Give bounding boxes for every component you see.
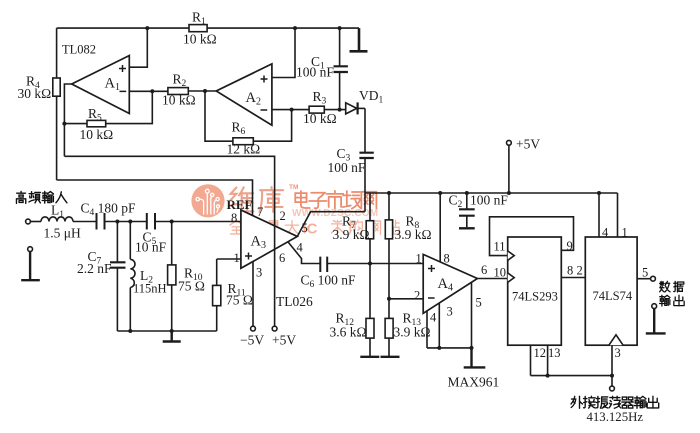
- capacitor C6: [320, 257, 327, 272]
- node junction C7: [115, 220, 119, 224]
- svg-text:6: 6: [279, 251, 285, 265]
- wire A3 pin4 output to C6: [288, 242, 320, 264]
- svg-text:2.2 nF: 2.2 nF: [77, 261, 112, 276]
- node junction R7 C6 line: [368, 262, 372, 266]
- wire A4 pin3: [438, 303, 440, 348]
- resistor R5: [64, 91, 152, 123]
- svg-text:2: 2: [414, 289, 420, 303]
- op-amp A2: [216, 64, 272, 125]
- wire feedback loop pin11 pin9: [490, 217, 574, 256]
- node junction pin13 bottom: [546, 374, 550, 378]
- wire A2 - input to R3: [272, 109, 346, 111]
- svg-text:8: 8: [444, 252, 450, 266]
- node junction A1+ rail: [145, 26, 149, 30]
- node junction C2 rail: [465, 191, 469, 195]
- svg-text:13: 13: [548, 346, 561, 360]
- svg-text:4: 4: [297, 241, 304, 255]
- IC 74LS293: [508, 237, 562, 345]
- svg-text:12 kΩ: 12 kΩ: [227, 142, 261, 157]
- wire A2 + input to rail: [272, 28, 295, 77]
- node junction 74LS74 pin4 rail: [597, 191, 601, 195]
- svg-text:TL026: TL026: [276, 294, 313, 309]
- wire 74LS74 pin3 to oscillator terminal: [611, 345, 613, 386]
- wire A4 pin4: [426, 311, 428, 348]
- svg-text:10: 10: [494, 266, 507, 280]
- clock symbol pin11: [508, 251, 515, 260]
- ground data return: [646, 309, 666, 334]
- resistor R3: [309, 106, 324, 113]
- svg-text:C6 100 nF: C6 100 nF: [301, 273, 357, 291]
- svg-text:8: 8: [231, 211, 237, 225]
- node junction +5V terminal rail: [507, 191, 511, 195]
- svg-text:C4 180 pF: C4 180 pF: [81, 201, 137, 219]
- svg-text:9: 9: [567, 239, 573, 253]
- svg-text:4: 4: [602, 226, 609, 240]
- resistor R12: [369, 264, 371, 357]
- op-amp A4 MAX961: [423, 254, 477, 313]
- wire input to L1: [30, 221, 41, 223]
- svg-text:3: 3: [256, 266, 262, 280]
- inductor L2: [130, 222, 135, 332]
- node junction C1 rail: [338, 26, 342, 30]
- wire A3 pin3: [252, 262, 254, 327]
- node junction pin3 gnd line: [437, 346, 441, 350]
- IC 74LS74: [585, 237, 637, 345]
- terminal data return: [652, 304, 657, 309]
- node junction R2 R6: [203, 89, 207, 93]
- CIRCUIT: [53, 25, 374, 212]
- wire 74LS74 pin4: [598, 193, 600, 237]
- wire C4 to C5: [105, 221, 147, 223]
- capacitor C1: [339, 28, 341, 110]
- terminal +5V A3: [272, 326, 277, 331]
- label input chinese: [16, 191, 66, 203]
- svg-text:5: 5: [642, 266, 648, 280]
- svg-text:2: 2: [577, 264, 583, 278]
- clock symbol pin3: [609, 335, 623, 345]
- resistor R10: [171, 222, 173, 332]
- resistor R8: [388, 193, 390, 299]
- wire top feedback rail: [57, 27, 359, 29]
- svg-text:3: 3: [447, 305, 453, 319]
- wire 74LS293 pin13: [547, 345, 549, 375]
- wire bottom oscillator line: [531, 375, 613, 377]
- resistor R11: [216, 259, 218, 331]
- svg-text:10 nF: 10 nF: [135, 240, 167, 255]
- svg-text:11: 11: [494, 240, 506, 254]
- svg-text:3.9 kΩ: 3.9 kΩ: [395, 227, 432, 242]
- MIDDLE2: [21, 156, 423, 341]
- wire +5V rail: [365, 192, 618, 194]
- node junction R8 rail: [387, 191, 391, 195]
- svg-text:100 nF: 100 nF: [296, 65, 334, 80]
- svg-text:10 kΩ: 10 kΩ: [303, 111, 337, 126]
- resistor R7: [369, 193, 371, 264]
- wire A4 pin5: [471, 283, 473, 348]
- terminal input signal: [26, 219, 31, 224]
- svg-text:10 kΩ: 10 kΩ: [162, 93, 196, 108]
- wire A3 pin2 pin6 vertical: [64, 156, 274, 326]
- node junction A4 pin8 rail: [438, 191, 442, 195]
- inductor L1: [41, 217, 73, 222]
- wire C5 to A3 input: [155, 221, 241, 223]
- TOPLABELS: [18, 10, 384, 176]
- node junction pin3 bottom: [610, 374, 614, 378]
- svg-text:+5V: +5V: [516, 137, 540, 152]
- svg-text:+5V: +5V: [272, 333, 296, 348]
- node junction L2 bottom: [128, 329, 132, 333]
- svg-text:115nH: 115nH: [133, 282, 167, 296]
- svg-text:1: 1: [416, 252, 422, 266]
- wire R2 to A2 output: [188, 90, 216, 92]
- wire 74LS74 pin5 output: [637, 278, 651, 280]
- RIGHT: [360, 140, 665, 390]
- wire A4 pin2: [389, 298, 423, 300]
- svg-text:TL082: TL082: [62, 43, 96, 57]
- terminal input return: [28, 247, 33, 252]
- capacitor C7: [116, 222, 118, 332]
- ground C2: [459, 227, 475, 229]
- wire L1 to C4: [73, 221, 97, 223]
- svg-text:1: 1: [622, 226, 628, 240]
- svg-text:6: 6: [481, 263, 487, 277]
- terminal -5V A3: [251, 326, 256, 331]
- wire A1 output down: [64, 84, 71, 156]
- svg-text:100 nF: 100 nF: [470, 193, 508, 208]
- svg-text:74LS74: 74LS74: [593, 289, 633, 303]
- ground MAX961: [464, 348, 486, 368]
- wire A1 - input: [129, 90, 168, 92]
- ground top right: [350, 28, 368, 51]
- svg-text:5: 5: [476, 296, 482, 310]
- wire A4 pin8: [439, 193, 441, 263]
- svg-text:7: 7: [257, 205, 263, 219]
- resistor R6 feedback: [205, 91, 292, 141]
- node junction A1 out R5: [62, 122, 66, 126]
- svg-text:30 kΩ: 30 kΩ: [18, 86, 52, 101]
- node junction R10: [170, 220, 174, 224]
- resistor R2: [168, 88, 188, 95]
- capacitor C4: [97, 213, 105, 230]
- op-amp A1: [72, 56, 130, 114]
- svg-text:413.125Hz: 413.125Hz: [587, 410, 644, 424]
- ground R13: [381, 356, 400, 358]
- wire A4 ground line: [427, 347, 472, 349]
- wire C6 to A4 pin1: [327, 263, 423, 265]
- resistor R13: [388, 299, 390, 357]
- node junction A2- R6: [290, 108, 294, 112]
- wire A3 pin1: [217, 258, 241, 260]
- svg-text:10 kΩ: 10 kΩ: [183, 32, 217, 47]
- svg-text:4: 4: [430, 311, 437, 325]
- wire 74LS74 pin1: [617, 193, 619, 237]
- svg-text:TM: TM: [289, 184, 298, 191]
- svg-text:3.9 kΩ: 3.9 kΩ: [333, 227, 370, 242]
- svg-text:3.6 kΩ: 3.6 kΩ: [330, 325, 367, 340]
- ground input: [21, 252, 40, 281]
- diode VD1: [346, 103, 357, 114]
- wire 74LS293 pin8 to 74LS74 pin2: [561, 277, 585, 279]
- svg-text:1: 1: [234, 251, 240, 265]
- capacitor C2: [466, 193, 468, 227]
- wire VD1 to C3: [364, 108, 366, 152]
- svg-text:5: 5: [302, 221, 308, 235]
- label oscillator output chinese: [571, 396, 659, 408]
- svg-text:3.9 kΩ: 3.9 kΩ: [394, 325, 431, 340]
- svg-text:MAX961: MAX961: [448, 375, 500, 390]
- svg-text:10 kΩ: 10 kΩ: [80, 127, 114, 142]
- terminal +5V: [507, 140, 512, 145]
- svg-text:8: 8: [567, 264, 573, 278]
- node junction R3 C1: [338, 108, 342, 112]
- svg-text:−5V: −5V: [240, 333, 264, 348]
- ground bottom rail: [163, 331, 181, 342]
- node junction R10 bottom: [170, 329, 174, 333]
- node junction R8 A4 pin2: [387, 297, 391, 301]
- svg-text:3: 3: [615, 346, 621, 360]
- wire bottom rail: [117, 330, 216, 332]
- node junction pin5 gnd line: [470, 346, 474, 350]
- clock symbol pin10: [508, 273, 515, 282]
- wire A3 pin5 output: [297, 212, 365, 237]
- wire R4 vertical branch: [56, 28, 58, 180]
- svg-text:REF: REF: [227, 197, 253, 212]
- wire 74LS293 pin12: [530, 345, 532, 375]
- svg-text:74LS293: 74LS293: [512, 290, 558, 304]
- svg-text:1.5 μH: 1.5 μH: [44, 226, 81, 241]
- svg-text:100 nF: 100 nF: [328, 160, 366, 175]
- ground R12: [360, 356, 379, 358]
- resistor R4: [53, 78, 60, 96]
- op-amp A3: [241, 210, 297, 268]
- wire A1 + input to rail: [129, 28, 147, 67]
- wire A3 pin7 from R4: [57, 180, 253, 215]
- WATERMARK: [191, 184, 399, 238]
- svg-text:2: 2: [280, 209, 286, 223]
- node junction A2+ rail: [293, 26, 297, 30]
- svg-text:75 Ω: 75 Ω: [178, 279, 205, 294]
- capacitor C3: [359, 153, 373, 158]
- terminal data output: [651, 276, 656, 281]
- resistor R1: [189, 25, 207, 32]
- wire A4 output to 74LS293 pin10: [477, 278, 507, 280]
- terminal oscillator: [610, 386, 615, 391]
- svg-text:12: 12: [534, 346, 547, 360]
- label data output chinese: [660, 281, 685, 306]
- node junction L2: [128, 220, 132, 224]
- capacitor C5: [147, 213, 155, 230]
- svg-text:75 Ω: 75 Ω: [226, 293, 253, 308]
- node junction A1- R5: [150, 89, 154, 93]
